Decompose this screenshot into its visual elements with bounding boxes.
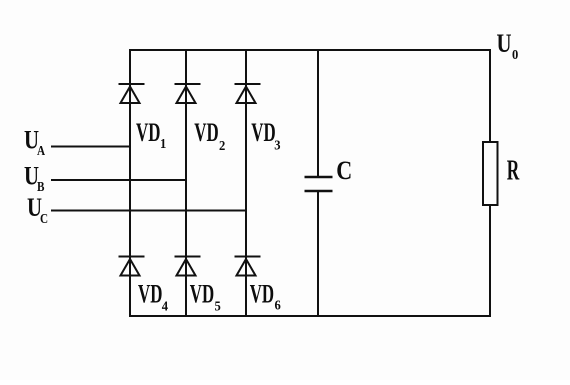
label U_A <box>24 127 46 159</box>
svg-text:0: 0 <box>512 46 519 62</box>
wire branch 3 vertical <box>245 50 247 316</box>
svg-text:6: 6 <box>275 297 282 313</box>
svg-text:B: B <box>37 179 45 194</box>
svg-text:VD: VD <box>136 117 160 147</box>
svg-text:4: 4 <box>162 298 169 314</box>
label U_B <box>24 162 45 194</box>
diode VD5 <box>175 257 201 276</box>
wire input A <box>52 146 130 148</box>
label VD5 <box>190 279 221 314</box>
svg-text:R: R <box>507 155 520 186</box>
svg-text:C: C <box>40 211 48 226</box>
wire capacitor branch lower <box>317 191 319 316</box>
svg-text:VD: VD <box>250 279 274 309</box>
svg-text:VD: VD <box>138 279 162 309</box>
svg-text:VD: VD <box>194 117 218 147</box>
label U_C <box>27 194 48 226</box>
diode VD2 <box>175 84 201 103</box>
label VD1 <box>136 117 166 151</box>
diode VD1 <box>119 84 145 103</box>
label VD6 <box>250 279 281 313</box>
svg-text:3: 3 <box>274 137 281 153</box>
wire top rail <box>130 49 490 51</box>
diode VD4 <box>119 257 145 276</box>
svg-text:VD: VD <box>190 279 214 309</box>
wire input C <box>52 210 246 212</box>
capacitor C plates <box>305 177 333 191</box>
label VD3 <box>251 117 281 152</box>
label VD4 <box>138 279 168 314</box>
svg-text:A: A <box>37 143 46 158</box>
wire input B <box>52 179 186 181</box>
wire branch 2 vertical <box>185 50 187 316</box>
wire bottom rail <box>130 315 490 317</box>
svg-text:C: C <box>336 158 352 186</box>
svg-text:1: 1 <box>160 136 166 152</box>
wire right rail lower <box>489 205 491 316</box>
svg-text:2: 2 <box>219 137 226 153</box>
wire right rail upper <box>489 50 491 142</box>
svg-text:U: U <box>497 30 512 59</box>
resistor R body <box>483 142 498 205</box>
wire capacitor branch upper <box>317 50 319 177</box>
svg-text:5: 5 <box>215 298 222 314</box>
label U_0 <box>497 30 519 62</box>
label VD2 <box>194 117 225 152</box>
wire branch 1 vertical <box>129 50 131 316</box>
diode VD3 <box>235 84 261 103</box>
diode VD6 <box>235 257 261 276</box>
svg-text:VD: VD <box>251 117 275 147</box>
